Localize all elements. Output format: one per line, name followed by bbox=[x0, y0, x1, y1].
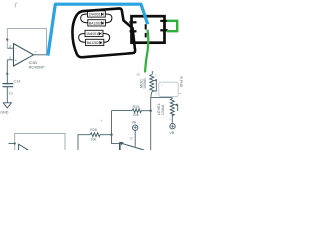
svg-text:VB: VB bbox=[169, 131, 174, 135]
op-amp U1 IC3B triangle bbox=[14, 44, 34, 66]
svg-text:1N4001: 1N4001 bbox=[89, 13, 101, 17]
wire feedback-loop box around IC3B bbox=[7, 29, 46, 55]
svg-text:R28: R28 bbox=[90, 128, 97, 132]
wire C14 to GND bbox=[6, 87, 8, 103]
wire to pin 6 bbox=[7, 47, 13, 49]
svg-text:5: 5 bbox=[9, 56, 11, 60]
svg-text:R29: R29 bbox=[133, 105, 140, 109]
potentiometer MOD 100kB bbox=[151, 71, 153, 75]
svg-text:1n: 1n bbox=[9, 91, 13, 95]
svg-text:BA1282: BA1282 bbox=[89, 22, 101, 26]
annotation green bracket bbox=[167, 21, 177, 31]
svg-text:R.PND: R.PND bbox=[179, 77, 183, 88]
annotation stub left bottom bbox=[130, 30, 137, 32]
wire op-amp output bbox=[34, 54, 49, 56]
annotation loop around diodes bbox=[72, 8, 135, 57]
diode D1 1N4001 bbox=[88, 11, 106, 17]
resistor R28 10k bbox=[90, 133, 100, 137]
wire vertical branch bbox=[112, 111, 120, 144]
resistor R29 20k bbox=[132, 109, 141, 113]
svg-text:IC3B: IC3B bbox=[29, 61, 38, 65]
trimmer wiper arrow bbox=[122, 143, 145, 150]
wire stub top-left bbox=[15, 3, 17, 8]
wire to pin 5 bbox=[7, 60, 13, 85]
wire loop pair1 right bbox=[105, 14, 112, 23]
wire MOD node to LEVEL bbox=[151, 97, 173, 99]
diode D4 BA1282 bbox=[86, 39, 104, 45]
annotation box bbox=[132, 16, 165, 43]
diode D3 1N4001 bbox=[85, 30, 103, 36]
ground GND bbox=[3, 103, 11, 108]
node junction dot bbox=[6, 73, 8, 75]
svg-text:C14: C14 bbox=[14, 80, 21, 84]
svg-text:10k: 10k bbox=[90, 138, 96, 142]
svg-text:BA1282: BA1282 bbox=[87, 41, 99, 45]
trimmer bar bbox=[119, 142, 121, 150]
svg-text:VA: VA bbox=[132, 120, 137, 124]
wiper MOD bbox=[153, 80, 156, 91]
wire R29 to main vertical bbox=[141, 110, 151, 112]
annotation stub right top bbox=[160, 20, 168, 22]
wire stub left to box bbox=[9, 143, 15, 145]
svg-text:10: 10 bbox=[129, 136, 133, 140]
node junction dot bbox=[150, 110, 152, 112]
wire R28 to node bbox=[100, 134, 112, 136]
tiny mark bbox=[101, 120, 102, 122]
wire R29 feed bbox=[112, 110, 133, 112]
wire loop pair2 left bbox=[79, 33, 86, 42]
svg-text:100kA: 100kA bbox=[161, 104, 165, 115]
potentiometer LEVEL 100kA bbox=[170, 98, 174, 116]
annotation green wire bbox=[145, 30, 148, 73]
svg-text:RC4559P: RC4559P bbox=[29, 66, 46, 70]
svg-text:6: 6 bbox=[9, 45, 11, 49]
annotation stub left top bbox=[129, 21, 136, 23]
wire main vertical net bbox=[150, 98, 152, 150]
annotation dash mid bottom bbox=[145, 33, 147, 38]
node junction dot box edge bbox=[14, 142, 16, 144]
test point VB bbox=[170, 124, 175, 129]
svg-text:7: 7 bbox=[35, 50, 37, 54]
svg-text:B5: B5 bbox=[137, 73, 141, 77]
annotation stub right bottom bbox=[160, 29, 168, 31]
wire LEVEL to VB bbox=[171, 114, 173, 123]
wire loop pair2 right bbox=[103, 33, 110, 42]
wire loop pair1 left bbox=[81, 14, 88, 23]
wire into R28 bbox=[78, 135, 90, 150]
op-amp U2 (partially cut) bbox=[19, 144, 28, 155]
wiper LEVEL bbox=[177, 105, 179, 111]
svg-text:GND: GND bbox=[0, 111, 9, 115]
svg-text:100kB: 100kB bbox=[143, 78, 147, 89]
node junction dot left bbox=[6, 39, 8, 41]
svg-text:1N4001: 1N4001 bbox=[86, 32, 98, 36]
annotation cyan wire bbox=[48, 4, 148, 55]
wire VA down bbox=[134, 130, 136, 146]
diode D2 BA1282 bbox=[88, 20, 106, 26]
annotation dash mid top bbox=[145, 24, 147, 29]
wire bottom-left section box bbox=[15, 133, 65, 150]
annotation rounded note box bbox=[159, 82, 178, 96]
node junction dot bbox=[110, 134, 112, 136]
capacitor C14 bbox=[3, 84, 14, 87]
svg-text:20k: 20k bbox=[133, 113, 139, 117]
